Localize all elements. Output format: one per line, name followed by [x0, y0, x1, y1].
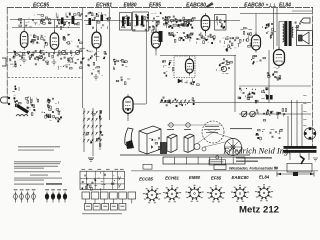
pictorial: switch module 2	[184, 134, 194, 153]
component cluster: EL84 cathode parts	[267, 67, 280, 80]
socket: EF85 base diagram	[207, 185, 225, 202]
component cluster: below EABC80 diodes	[196, 33, 215, 44]
component: shield can dark	[159, 31, 163, 42]
component cluster: EF85 grid circuit	[149, 12, 161, 33]
legend: resistor symbol outline 4	[32, 189, 36, 202]
component cluster: ratio det bottom	[185, 79, 200, 86]
tube U6 EL84 output pentode	[274, 47, 285, 68]
wire: separator line above sockets	[131, 170, 318, 172]
component: diode pair dark	[266, 95, 273, 100]
potentiometer P2 tone	[250, 111, 256, 117]
wire: B+ top rail	[240, 13, 312, 15]
wire: ECC85a anode lead	[23, 20, 25, 32]
svg-text:EL84: EL84	[259, 175, 270, 180]
svg-text:ECH81: ECH81	[165, 176, 179, 181]
resistor chain: IF signal row	[171, 19, 192, 21]
table: cell entries	[82, 172, 115, 191]
component cluster: AF control row top	[238, 88, 268, 103]
text: strip caption	[82, 213, 122, 214]
pictorial: keyboard box 3d	[139, 126, 161, 154]
component cluster: af takeoff	[216, 58, 233, 73]
switch S2 UKW-TA contact row	[160, 100, 190, 103]
wire: IF section top rail	[160, 55, 236, 57]
wire: transformer secondary leads	[290, 153, 309, 160]
component cluster: IF row y20	[162, 16, 195, 29]
component cluster: ECC85 grid parts	[30, 35, 48, 49]
component: electrolytic C	[221, 66, 226, 71]
component cluster: FM osc trimmers	[58, 48, 85, 69]
wire: EM80 leads	[128, 104, 146, 121]
wire: EABC80t anode lead	[255, 14, 257, 36]
wire: AF section rail	[239, 85, 311, 87]
component cluster: EM80 coupling resistors	[113, 59, 127, 70]
transformer T1 power transformer core	[284, 146, 317, 153]
stamp: line 2	[236, 161, 258, 162]
wire: vertical line x109	[109, 8, 111, 120]
svg-text:+⊥⊥: +⊥⊥	[266, 3, 278, 8]
component cluster: mid sparse parts	[116, 77, 130, 85]
pictorial: dial cord circle	[202, 121, 224, 143]
wire: frame left edge	[6, 8, 8, 104]
socket: EABC80 base diagram	[231, 185, 249, 202]
component cluster: EABC80 triode grid	[239, 27, 252, 47]
wire: EABC80d leads	[205, 31, 207, 37]
inductor: output primary winding	[283, 24, 285, 42]
wire: vertical AGC line	[82, 8, 84, 108]
switch S1 waveband contact bank row3	[83, 125, 102, 128]
resistor chain: IF secondary row	[173, 24, 189, 26]
component cluster: speaker wiring	[295, 22, 301, 30]
pictorial: pointer arm	[125, 128, 133, 148]
switch S1 waveband contact bank row1	[83, 111, 102, 114]
svg-text:EABC80: EABC80	[186, 3, 206, 9]
wire: heater rail y27	[12, 27, 80, 29]
pictorial: switch module 1	[167, 134, 177, 153]
table: header ticks	[82, 168, 124, 171]
wire: frame right edge	[312, 8, 314, 147]
switch S3 mains switch contacts	[256, 129, 283, 140]
terminal: AM antenna	[2, 58, 6, 66]
tube U3 EF85	[152, 30, 161, 51]
switch S1 waveband contact bank row4	[83, 132, 102, 135]
pictorial: drive drum	[225, 139, 242, 156]
wire: vertical x235	[234, 55, 236, 112]
table: voltage chart frame	[80, 171, 124, 189]
inductor L1 ferrite rod antenna	[16, 104, 29, 116]
component cluster: antenna filter	[12, 86, 21, 107]
switch S2 contact row parts	[161, 97, 195, 107]
component cluster: ECH81 below	[83, 50, 107, 61]
legend: capacitor symbol filled 4	[63, 189, 67, 202]
pictorial: stamp emblem box	[209, 156, 226, 165]
legend: resistor symbol outline 3	[26, 189, 30, 202]
switch S1 waveband contact bank row5	[83, 139, 102, 142]
text: legend caption line	[14, 183, 62, 185]
component cluster: top-left corner parts	[18, 18, 31, 27]
svg-text:EABC80: EABC80	[232, 175, 250, 180]
wire: bus y52	[8, 52, 80, 54]
connector: mains plug box	[287, 164, 312, 173]
capacitor: trimmer C ant	[38, 54, 43, 59]
diode D1 germanium	[178, 79, 182, 83]
component cluster: FM input circuit	[33, 15, 52, 25]
ground: under ECC85b	[52, 59, 57, 65]
component cluster: detector parts right	[219, 36, 239, 51]
wire: B+ rail vertical pair	[269, 8, 277, 103]
svg-text:ECC85: ECC85	[33, 3, 49, 9]
wire: dashed tuning link	[8, 77, 82, 79]
legend: capacitor symbol filled 3	[57, 189, 61, 202]
component cluster: FM interstage	[56, 12, 82, 29]
wire: EF85 cathode lead	[155, 48, 157, 56]
tube U4 EM80 tuning indicator	[123, 94, 133, 116]
wire: frame top edge	[7, 7, 313, 9]
text: service notes paragraph	[14, 161, 62, 180]
socket: ECH81 base diagram	[163, 185, 181, 202]
wire: ECC85b anode lead	[54, 20, 56, 33]
label: Skalenseil note	[204, 126, 252, 133]
svg-text:EM80: EM80	[123, 3, 136, 9]
component: EM80 target dot	[127, 108, 130, 111]
component cluster: tone caps	[257, 109, 274, 121]
svg-text:Metz 212: Metz 212	[239, 204, 279, 215]
inductor cores: IF can coils dark	[122, 16, 143, 27]
component cluster: ratio det left parts	[163, 61, 174, 77]
wire: top signal bus left	[10, 19, 82, 21]
svg-text:ECH81: ECH81	[96, 3, 112, 9]
wire: transformer primary leads	[288, 100, 302, 146]
pictorial: ink smudge arrow near EABC80 label	[206, 2, 214, 8]
chassis: dial mechanism baseline	[120, 154, 250, 156]
rectifier GR1 bridge	[304, 127, 316, 139]
svg-text:Friedrich Neid Ing.: Friedrich Neid Ing.	[222, 146, 290, 156]
capacitor: trimmer C osc 1	[61, 50, 67, 56]
component cluster: EL84 grid leak	[251, 55, 266, 64]
wire: EF85 anode lead	[155, 21, 157, 33]
component cluster: ECH81 top parts	[85, 12, 110, 29]
wire: switch bank verticals	[84, 108, 100, 156]
legend: capacitor symbol filled 2	[51, 189, 55, 202]
ground: switch bank	[88, 158, 94, 161]
svg-text:EL84: EL84	[279, 3, 291, 9]
component cluster: switch bank parts	[86, 111, 103, 147]
transformer Fi2 FM IF can	[133, 12, 150, 31]
capacitor: trimmer C osc 2	[68, 57, 74, 63]
wire: ECH81 anode lead	[96, 21, 98, 33]
legend: resistor symbol outline 2	[20, 189, 24, 202]
text: note lines lower left of schematic	[18, 146, 60, 150]
pictorial: small box above ECC85 label	[143, 164, 152, 169]
label: transformer tap ticks	[303, 95, 306, 126]
pictorial: small box above sockets	[214, 165, 226, 170]
component cluster: below ECC85 cathode row	[13, 50, 58, 61]
tube U2 ECH81	[92, 30, 101, 51]
ground: mains	[313, 158, 318, 161]
wire: speaker feed	[292, 10, 312, 12]
fuse Si1	[300, 156, 304, 164]
legend: resistor symbol outline 1	[14, 189, 18, 202]
socket: EM80 base diagram	[185, 185, 203, 202]
wire: anode to transformer	[279, 22, 284, 50]
component cluster: EABC80 anode parts	[262, 23, 276, 39]
wire: EM80 feed vertical	[146, 21, 148, 105]
transformer T2 output transformer core	[284, 21, 291, 46]
ground: under ECC85a	[22, 57, 27, 63]
tube U5b EABC80 ratio detector diodes	[186, 57, 194, 76]
component cluster: pilot lamps	[277, 109, 287, 120]
inductor cores: FM coils dark	[61, 15, 103, 26]
wire: ECH81 cathode lead	[96, 48, 98, 61]
ground: under ECH81	[94, 74, 99, 80]
component cluster: mixer grid parts	[34, 57, 48, 66]
svg-text:EABC80: EABC80	[244, 3, 264, 9]
component cluster: trimmers between triodes	[63, 34, 82, 47]
stamp: line 1	[236, 157, 272, 158]
tube U5c EABC80 triode	[252, 33, 261, 53]
wire: tone circuit bus	[239, 113, 311, 115]
capacitor: trimmer C osc 3	[75, 50, 81, 56]
pictorial: drive wheel hatched	[160, 142, 167, 154]
tube U5a EABC80 diode section	[201, 13, 210, 33]
socket: EL84 base diagram	[255, 184, 273, 201]
component cluster: AM band coils	[47, 98, 59, 104]
component cluster: ECH81 osc	[87, 62, 103, 76]
tube U1b ECC85 second triode	[50, 30, 59, 52]
inductor: output secondary winding	[292, 27, 293, 37]
component cluster: left mid parts	[9, 56, 22, 68]
switch S1 waveband contact bank row2	[83, 118, 102, 121]
potentiometer P1 volume	[241, 111, 247, 117]
svg-text:EF85: EF85	[149, 3, 161, 9]
transformer Fi1 AM IF can	[120, 13, 132, 31]
svg-text:ECC85: ECC85	[139, 177, 153, 182]
pictorial: pointer tip dark	[126, 140, 134, 149]
svg-text:EF85: EF85	[211, 176, 222, 181]
component cluster: IF row y34	[168, 32, 193, 42]
pictorial: small pulleys	[169, 123, 206, 151]
speaker LS1 cone	[299, 32, 310, 44]
socket: ECC85 base diagram	[143, 186, 161, 203]
transformer: ratio detector dashed box	[174, 56, 195, 78]
speaker LS2 tweeter	[301, 18, 311, 23]
wire: AF bus	[160, 102, 311, 104]
table: gamma symbols	[118, 176, 122, 190]
wire: signal bus y20 mid	[84, 20, 160, 22]
terminal: FM antenna sockets	[1, 97, 11, 105]
transformer Fi3 last IF can	[215, 15, 227, 31]
speaker LS1 box	[297, 31, 313, 46]
tube U1a ECC85 first triode	[20, 29, 28, 50]
svg-text:Wiesbaden, Fortunastraße 50: Wiesbaden, Fortunastraße 50	[229, 167, 278, 171]
pictorial: dial cord runs	[167, 125, 233, 147]
pictorial: dial scale bar	[163, 157, 245, 164]
legend: capacitor symbol filled 1	[45, 189, 49, 202]
svg-text:EM80: EM80	[189, 175, 201, 180]
dimension: arrow line	[277, 172, 314, 177]
pictorial: chassis socket strip row 2	[85, 204, 126, 211]
component cluster: AM input tuned circuit	[25, 97, 39, 116]
wire: signal bus y20 right	[163, 20, 240, 22]
pictorial: chassis socket strip row 1	[82, 192, 136, 204]
label: module labels	[167, 129, 191, 130]
component cluster: AM mixer parts	[42, 105, 62, 123]
